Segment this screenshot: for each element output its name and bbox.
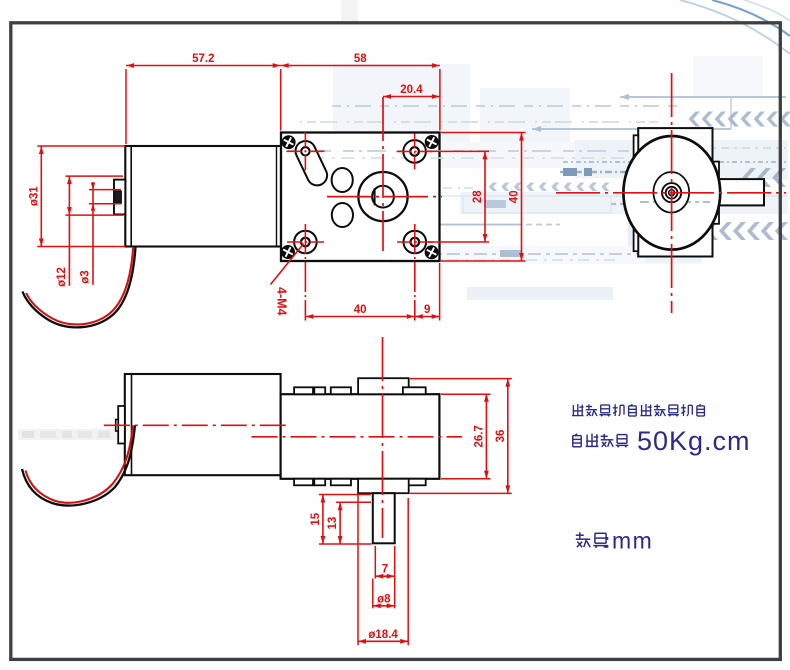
- decor arcs top-right corner: [680, 0, 790, 54]
- extension lines left dims: [37, 146, 125, 247]
- dimension 26.7: [473, 394, 488, 479]
- svg-text:ø8: ø8: [377, 593, 391, 605]
- side view: bottom tabs: [294, 479, 426, 493]
- background soft panels: [283, 56, 788, 300]
- centerline end view vertical: [671, 73, 673, 313]
- svg-text:40: 40: [509, 190, 521, 203]
- svg-text:4-M4: 4-M4: [275, 287, 289, 316]
- svg-text:40: 40: [354, 304, 367, 316]
- end view: shaft circles: [662, 183, 681, 202]
- front view: wire red: [26, 247, 133, 324]
- dimension 36: [495, 379, 510, 494]
- dimension diam 18.4: [358, 629, 408, 644]
- svg-text:57.2: 57.2: [192, 53, 214, 65]
- front view: motor rear boss: [114, 180, 125, 215]
- watermark (faint): [18, 429, 154, 440]
- note line 1: ci kuan wo gan ju bei ji xie zi suo: [572, 404, 704, 416]
- svg-text:ø31: ø31: [28, 186, 40, 206]
- extension lines shaft dims: [319, 495, 408, 646]
- screw top-right: [425, 136, 438, 149]
- end view: gearbox silhouette: [634, 128, 719, 256]
- screw bottom-left: [282, 246, 295, 259]
- svg-text:ø3: ø3: [79, 270, 91, 283]
- decor small data blocks: [388, 168, 592, 258]
- screw top-left: [282, 136, 295, 149]
- dimension 7: [375, 564, 394, 579]
- svg-text:50Kg.cm: 50Kg.cm: [637, 426, 751, 456]
- decor left-pointing arrows: [404, 94, 786, 228]
- end view: front boss ellipse: [653, 172, 689, 213]
- hole in slot: [301, 147, 309, 155]
- svg-text:36: 36: [495, 430, 507, 443]
- dimension 20.4: [383, 84, 440, 99]
- label 4-M4 with leader: [271, 244, 304, 316]
- mounting hole bottom-right: [404, 231, 427, 254]
- decor rows over plate: [288, 151, 655, 158]
- centerline motor axis: [104, 424, 289, 426]
- dimension diam 8: [373, 593, 395, 608]
- decor chevron strip A (top right): [689, 112, 790, 127]
- side view: gearbox body: [281, 394, 440, 479]
- centerline bore horizontal: [327, 196, 442, 198]
- svg-text:26.7: 26.7: [473, 425, 485, 447]
- decor dashed data lines: [283, 106, 786, 260]
- centerline cross hole BL: [287, 224, 324, 321]
- centerline bore vertical: [382, 97, 384, 251]
- extension lines side right dims: [410, 379, 512, 494]
- front view: motor body: [125, 146, 281, 247]
- dimension 28: [472, 151, 487, 242]
- end view: dash row over circle: [640, 201, 710, 203]
- svg-text:15: 15: [310, 512, 322, 525]
- side view: motor rear boss: [116, 406, 125, 444]
- front view: small oval lower: [332, 203, 353, 227]
- centerline output shaft axis: [382, 337, 384, 538]
- end view: motor circle: [623, 136, 720, 250]
- dimension 58: [281, 53, 440, 68]
- svg-text:13: 13: [327, 517, 339, 530]
- centerline cross slot hole: [286, 132, 324, 170]
- faint band above frame: [341, 0, 358, 22]
- extension lines right dims: [428, 133, 526, 262]
- extension lines top dims: [126, 69, 440, 144]
- note line 3: dan wei (unit): [576, 532, 609, 548]
- extension line gearbox right bottom: [439, 263, 441, 321]
- dimension 9: [415, 304, 440, 319]
- mounting hole bottom-left: [294, 231, 317, 254]
- side view: output shaft: [373, 493, 395, 543]
- svg-text:ø12: ø12: [56, 267, 68, 287]
- dimension diam 3: [79, 182, 95, 285]
- dimension 40 bottom: [305, 304, 414, 319]
- svg-text:ø18.4: ø18.4: [368, 629, 398, 641]
- side view: top tabs: [294, 378, 426, 394]
- svg-text:mm: mm: [612, 528, 653, 554]
- dimension 57.2: [126, 53, 281, 68]
- centerline end view horizontal: [556, 192, 786, 194]
- dimension diam 12: [56, 176, 72, 287]
- decor chevron strip B (right): [742, 168, 786, 187]
- svg-text:20.4: 20.4: [400, 84, 423, 96]
- side view: motor body: [125, 374, 281, 475]
- end view: shaft stub right: [719, 179, 764, 205]
- dimension diam 31: [28, 146, 43, 247]
- dimension 15: [310, 495, 325, 545]
- note line 2: zi suo li ju: [573, 434, 629, 448]
- decor chevron strip D (center): [489, 183, 610, 192]
- front view: slot (obround): [292, 138, 330, 189]
- centerline gearbox axis: [252, 436, 463, 438]
- decor panel outline: [463, 196, 611, 213]
- svg-text:58: 58: [354, 53, 367, 65]
- front view: small oval upper: [332, 168, 353, 192]
- front view: wire black: [23, 247, 136, 327]
- screw bottom-right: [425, 246, 438, 259]
- svg-text:9: 9: [424, 304, 430, 316]
- side view: wire black: [22, 425, 135, 505]
- centerline cross hole TR: [397, 133, 433, 169]
- front view: output bore: [358, 172, 407, 221]
- svg-text:28: 28: [472, 190, 484, 203]
- dimension 40 right: [509, 133, 524, 262]
- front view: gearbox plate: [281, 133, 440, 262]
- decor chevron strip C (right mid): [635, 222, 788, 240]
- mounting hole top-right: [403, 140, 426, 163]
- centerline cross hole BR: [397, 224, 433, 321]
- side view: wire red: [26, 425, 134, 502]
- dimension 13: [327, 502, 342, 544]
- svg-text:7: 7: [382, 564, 388, 576]
